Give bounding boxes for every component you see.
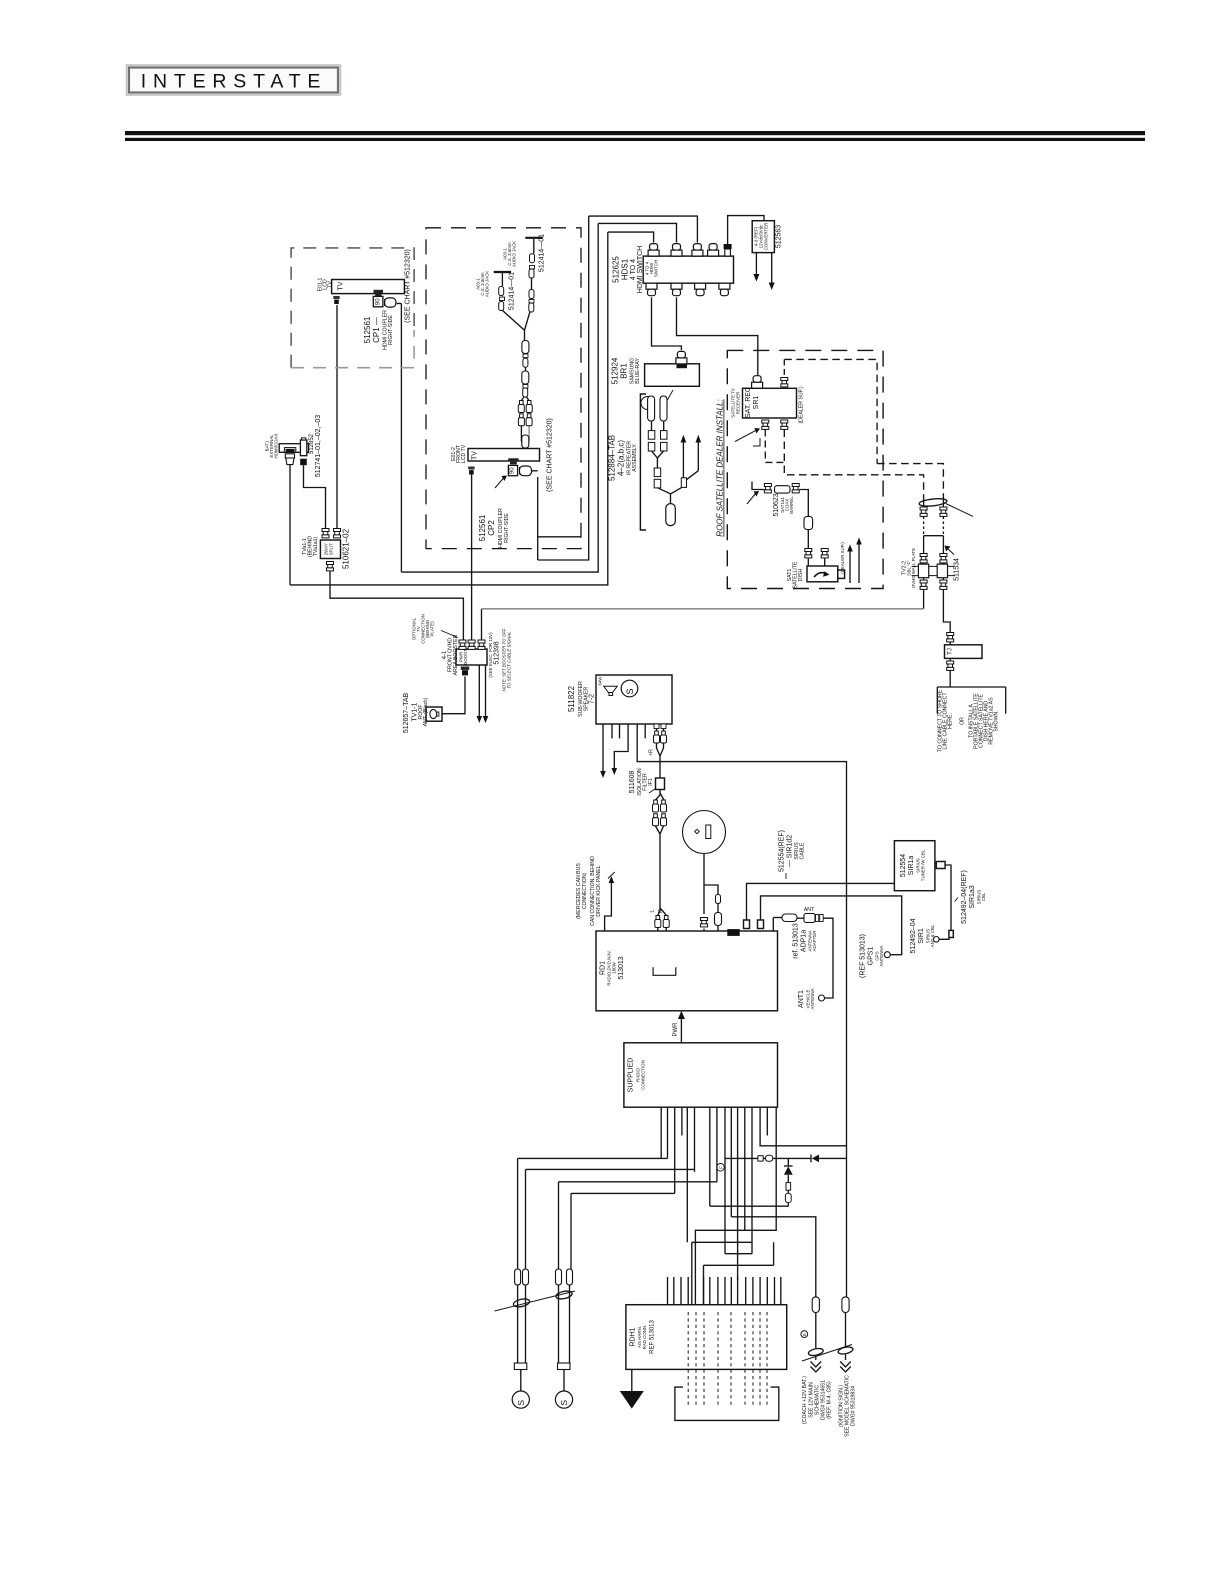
svg-text:512561: 512561 [478,514,487,541]
svg-text:64W: 64W [598,676,603,686]
svg-text:TJ: TJ [948,648,954,655]
svg-text:AUDIO JACK: AUDIO JACK [512,241,517,267]
svg-text:S: S [559,1400,569,1406]
svg-text:SWITCH: SWITCH [654,260,659,277]
svg-text:511822: 511822 [567,685,576,712]
svg-text:OR: OR [960,717,966,725]
svg-text:HDMI/COAX: HDMI/COAX [274,433,279,458]
svg-text:512414—01: 512414—01 [509,272,516,310]
svg-text:512625: 512625 [612,256,621,283]
svg-text:SPLIT: SPLIT [329,543,334,556]
svg-text:OVHD WALL PLATE: OVHD WALL PLATE [911,548,916,588]
svg-text:(DEALER SUP.): (DEALER SUP.) [799,386,805,423]
svg-text:ANTENNA: ANTENNA [879,945,884,966]
svg-text:7-2: 7-2 [589,694,596,704]
svg-text:512884–TAB: 512884–TAB [608,435,617,481]
svg-text:RAD CONN.: RAD CONN. [642,1325,647,1350]
svg-text:(SEE CHART #512320): (SEE CHART #512320) [405,249,412,323]
svg-text:CP1 —: CP1 — [372,317,381,343]
svg-text:(COACH +12V BAT.): (COACH +12V BAT.) [802,1376,808,1424]
svg-text:DWG# 95319834: DWG# 95319834 [851,1386,857,1426]
svg-text:IF1: IF1 [648,778,654,786]
svg-text:PWR: PWR [673,1022,679,1037]
svg-text:INTERSTATE: INTERSTATE [141,71,327,93]
svg-text:CONNECTION: CONNECTION [641,1060,646,1090]
svg-text:510621–02: 510621–02 [342,528,351,569]
svg-text:4 TO 4: 4 TO 4 [630,259,637,280]
svg-text:HERE.: HERE. [948,713,954,729]
svg-text:TUNER /W CBL: TUNER /W CBL [921,849,926,881]
svg-text:BARREL: BARREL [789,496,794,514]
svg-text:CBL: CBL [981,892,986,901]
svg-text:512561: 512561 [363,316,372,343]
svg-text:CONNECTION): CONNECTION) [582,872,588,909]
svg-text:180W: 180W [612,961,617,973]
svg-text:RIGHT-SIDE: RIGHT-SIDE [388,315,394,345]
svg-text:ANT: ANT [804,907,815,913]
svg-text:511534: 511534 [954,558,961,581]
svg-text:512563: 512563 [776,225,783,248]
svg-text:512492–04: 512492–04 [910,918,917,953]
svg-text:4–2(a,b,c): 4–2(a,b,c) [617,440,626,476]
svg-text:512924: 512924 [611,357,620,384]
svg-text:— SIR1d2: — SIR1d2 [787,835,794,867]
svg-text:RDH1: RDH1 [630,1327,637,1346]
svg-text:BR1: BR1 [620,363,629,379]
svg-text:TVa1a1): TVa1a1) [313,536,319,556]
svg-text:HDS1: HDS1 [621,258,630,280]
svg-text:REF 513013: REF 513013 [650,1320,656,1354]
svg-text:CONVERTER: CONVERTER [764,223,769,251]
svg-text:AUDIO JACK: AUDIO JACK [485,271,490,297]
svg-text:CABLE: CABLE [800,842,806,860]
svg-text:(REF 513013): (REF 513013) [860,934,867,978]
svg-text:L: L [650,909,656,912]
svg-text:S: S [516,1400,526,1406]
svg-text:R: R [658,909,664,913]
svg-text:PLATE): PLATE) [430,621,435,637]
svg-text:GPS1: GPS1 [868,947,875,966]
svg-text:ADAPTER: ADAPTER [812,931,817,952]
svg-text:TV: TV [328,281,334,288]
svg-text:ROOF SATELLITE DEALER INSTALL:: ROOF SATELLITE DEALER INSTALL: [716,399,725,536]
svg-text:SHOWN.: SHOWN. [994,710,1000,731]
svg-text:TO SELECT CABLE SIGNAL: TO SELECT CABLE SIGNAL [507,631,512,689]
svg-text:LCD TV: LCD TV [461,444,467,463]
svg-text:512554: 512554 [900,854,907,877]
svg-text:(DEALER SUP.): (DEALER SUP.) [840,542,845,574]
svg-text:512741–01,–02,–03: 512741–01,–02,–03 [315,415,322,477]
svg-text:RECEIVER: RECEIVER [736,392,741,414]
svg-text:TV: TV [338,281,345,290]
svg-text:510623: 510623 [773,493,780,516]
svg-text:90: 90 [510,467,516,474]
svg-text:BOOST: BOOST [463,649,468,665]
svg-text:RD1: RD1 [600,961,607,975]
svg-text:512554(REF): 512554(REF) [779,830,786,872]
svg-text:E: E [802,1333,807,1336]
svg-text:S: S [625,688,635,694]
svg-text:(REF. M-4, C85): (REF. M-4, C85) [827,1381,833,1419]
svg-text:SIR1: SIR1 [918,928,925,944]
svg-text:TV: TV [472,451,479,460]
svg-text:512492–04(REF): 512492–04(REF) [961,870,968,924]
svg-text:F: F [718,1166,723,1169]
svg-text:ref. 513013: ref. 513013 [793,923,800,959]
svg-text:SR1: SR1 [753,396,760,410]
svg-text:513013: 513013 [618,956,625,979]
svg-text:DISH: DISH [798,569,804,582]
svg-text:HDMI SWITCH: HDMI SWITCH [637,246,644,293]
svg-text:ASSEMBLY: ASSEMBLY [632,444,638,472]
svg-text:SAT. REC: SAT. REC [745,387,752,418]
svg-text:90: 90 [376,298,382,305]
svg-text:SIR1a3: SIR1a3 [969,885,976,908]
svg-text:ANT1: ANT1 [798,990,805,1008]
svg-text:DRIVER KICK PANEL: DRIVER KICK PANEL [596,865,602,916]
svg-text:ANTENNA: ANTENNA [810,988,815,1009]
svg-text:512414—01: 512414—01 [539,234,546,272]
svg-text:(SEE CHART #512320): (SEE CHART #512320) [547,418,554,492]
svg-text:511608: 511608 [629,770,636,793]
svg-text:ADP1a: ADP1a [801,930,808,952]
svg-text:+R: +R [649,749,655,756]
svg-text:512398: 512398 [494,641,501,664]
svg-text:(SEE ELEC. FOR 12V): (SEE ELEC. FOR 12V) [488,632,493,678]
svg-text:ANT. (Black): ANT. (Black) [423,697,429,726]
svg-text:SIR1a: SIR1a [908,856,915,876]
svg-text:RIGHT-SIDE: RIGHT-SIDE [504,513,510,543]
svg-text:SUPPLIED: SUPPLIED [628,1058,635,1093]
svg-text:512657–TAB: 512657–TAB [403,693,410,734]
svg-text:BLUE-RAY: BLUE-RAY [635,358,641,384]
svg-text:ANT & CBL: ANT & CBL [930,924,935,947]
svg-text:CP2: CP2 [487,520,496,536]
